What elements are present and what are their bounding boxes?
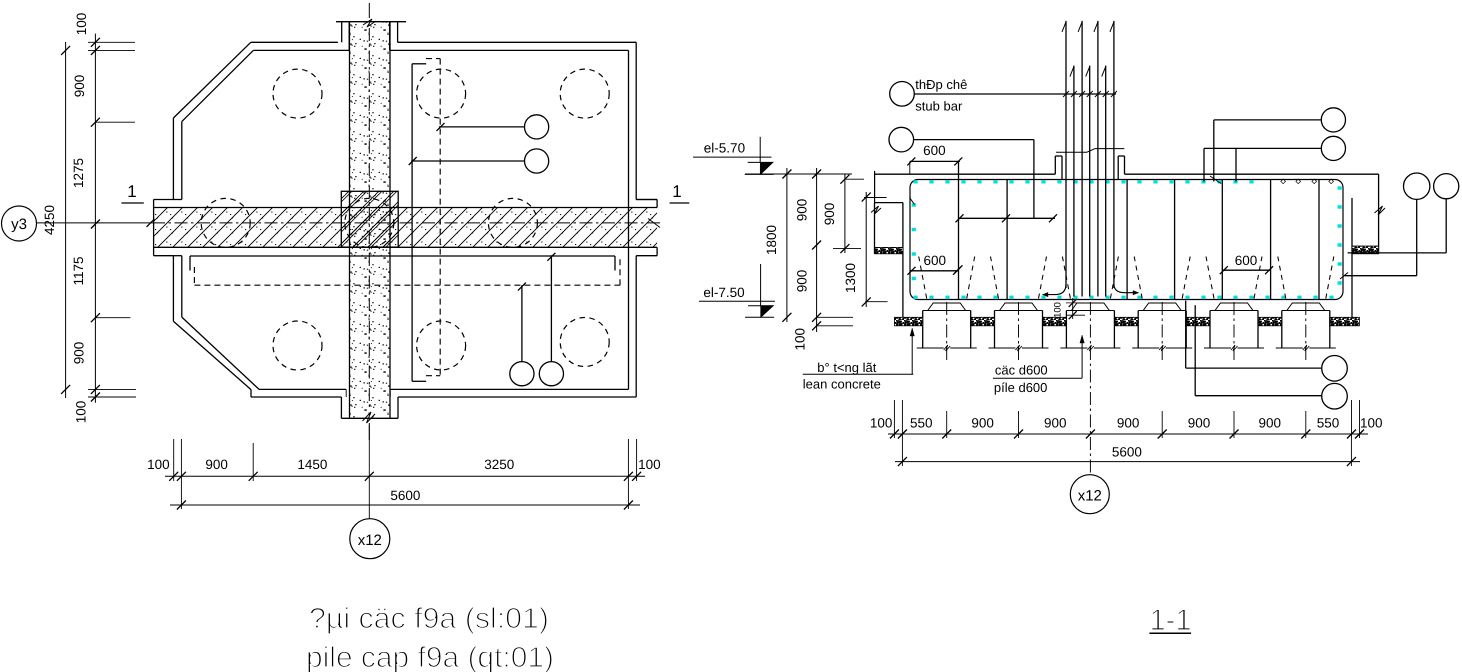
svg-text:600: 600 bbox=[1235, 253, 1258, 268]
svg-text:900: 900 bbox=[1044, 416, 1067, 431]
svg-text:5600: 5600 bbox=[1112, 445, 1142, 460]
svg-text:píle d600: píle d600 bbox=[994, 380, 1048, 395]
svg-text:4250: 4250 bbox=[42, 205, 57, 235]
svg-text:1800: 1800 bbox=[764, 225, 779, 255]
svg-text:el-5.70: el-5.70 bbox=[704, 141, 745, 156]
svg-text:100: 100 bbox=[147, 457, 170, 472]
svg-text:1275: 1275 bbox=[71, 158, 86, 188]
svg-text:el-7.50: el-7.50 bbox=[703, 285, 744, 300]
svg-text:1-1: 1-1 bbox=[1150, 604, 1192, 637]
svg-text:900: 900 bbox=[72, 342, 87, 365]
svg-text:1450: 1450 bbox=[297, 457, 327, 472]
svg-text:900: 900 bbox=[1188, 416, 1211, 431]
svg-text:900: 900 bbox=[971, 416, 994, 431]
svg-text:900: 900 bbox=[72, 75, 87, 98]
svg-text:900: 900 bbox=[822, 203, 837, 226]
svg-text:3250: 3250 bbox=[484, 457, 514, 472]
svg-text:550: 550 bbox=[1317, 416, 1340, 431]
svg-text:900: 900 bbox=[795, 270, 810, 293]
svg-text:100: 100 bbox=[870, 416, 893, 431]
svg-text:900: 900 bbox=[205, 457, 228, 472]
svg-text:thÐp chê: thÐp chê bbox=[915, 77, 967, 92]
svg-text:600: 600 bbox=[924, 253, 947, 268]
svg-text:cäc d600: cäc d600 bbox=[995, 363, 1048, 378]
svg-text:900: 900 bbox=[1117, 416, 1140, 431]
svg-text:b° t<ng lãt: b° t<ng lãt bbox=[817, 360, 876, 375]
svg-text:100: 100 bbox=[74, 401, 89, 424]
svg-text:lean concrete: lean concrete bbox=[803, 377, 881, 392]
svg-text:x12: x12 bbox=[358, 532, 382, 549]
svg-text:1175: 1175 bbox=[71, 256, 86, 285]
svg-text:?µi cäc f9a (sl:01): ?µi cäc f9a (sl:01) bbox=[309, 603, 549, 635]
svg-text:stub bar: stub bar bbox=[915, 99, 963, 114]
svg-text:100: 100 bbox=[1360, 416, 1383, 431]
svg-text:900: 900 bbox=[795, 199, 810, 222]
svg-text:600: 600 bbox=[923, 143, 946, 158]
svg-text:5600: 5600 bbox=[390, 488, 420, 503]
svg-text:100: 100 bbox=[793, 328, 808, 351]
svg-text:100: 100 bbox=[638, 457, 661, 472]
svg-text:y3: y3 bbox=[11, 216, 27, 233]
svg-text:x12: x12 bbox=[1078, 488, 1102, 505]
svg-text:100: 100 bbox=[74, 13, 89, 36]
svg-text:100: 100 bbox=[1053, 302, 1064, 318]
svg-text:1: 1 bbox=[127, 182, 136, 201]
svg-text:1: 1 bbox=[672, 182, 681, 201]
svg-text:550: 550 bbox=[910, 416, 933, 431]
svg-text:pile cap f9a (qt:01): pile cap f9a (qt:01) bbox=[306, 642, 554, 672]
svg-text:900: 900 bbox=[1259, 416, 1282, 431]
svg-text:1300: 1300 bbox=[843, 263, 858, 293]
